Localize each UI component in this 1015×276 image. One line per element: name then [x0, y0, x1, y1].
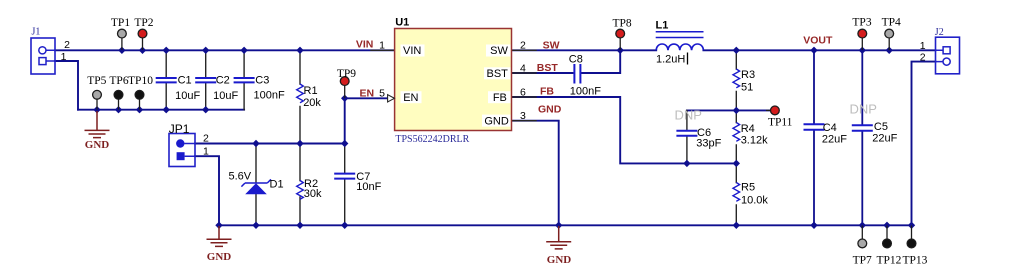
U1 pin name EN: [401, 91, 422, 103]
wire C2 leads: [205, 50, 207, 109]
svg-text:10uF: 10uF: [213, 90, 238, 102]
svg-text:2: 2: [920, 51, 926, 63]
svg-text:TP2: TP2: [134, 17, 153, 29]
junction TP13/J2: [908, 222, 915, 229]
junction C7 top on EN node: [341, 140, 348, 147]
test point TP8: [619, 38, 621, 50]
test point TP12: [886, 226, 888, 240]
op-amp U1 TPS562242DRLR body: [395, 29, 512, 131]
svg-text:C5: C5: [874, 121, 888, 133]
test point TP1: [121, 38, 123, 50]
svg-text:R1: R1: [304, 85, 318, 97]
svg-text:R3: R3: [741, 69, 755, 81]
svg-text:J1: J1: [32, 26, 41, 37]
wire C5 column: [861, 50, 863, 225]
svg-text:30k: 30k: [304, 188, 322, 200]
svg-text:TP4: TP4: [882, 17, 901, 29]
svg-text:R5: R5: [741, 182, 755, 194]
test point TP6: [118, 99, 120, 109]
junction U1 GND bottom: [555, 222, 562, 229]
svg-text:6: 6: [520, 86, 526, 98]
wire C6 top node to R3/R4 junction: [687, 109, 736, 111]
svg-text:GND: GND: [547, 254, 572, 266]
junction C5/TP7 bottom: [859, 222, 866, 229]
wire FB pin stub black: [512, 96, 537, 98]
junction C2 top: [202, 47, 209, 54]
svg-text:FB: FB: [493, 92, 507, 104]
junction C4 top: [810, 47, 817, 54]
svg-text:BST: BST: [486, 68, 508, 80]
svg-text:1: 1: [920, 40, 926, 52]
svg-text:4: 4: [520, 63, 526, 75]
U1 pin name GND: [482, 115, 511, 127]
svg-text:D1: D1: [270, 178, 284, 190]
resistor R2 zigzag: [297, 181, 304, 200]
junction R3 top: [733, 47, 740, 54]
svg-text:1: 1: [379, 40, 385, 52]
svg-text:1.2uH: 1.2uH: [656, 54, 685, 66]
test point TP11: [766, 109, 771, 111]
connector J2: [936, 37, 960, 74]
wire JP1 pin1 to bottom rail: [195, 156, 219, 225]
svg-text:TP8: TP8: [613, 17, 632, 29]
svg-text:JP1: JP1: [169, 122, 190, 136]
inductor L1: [656, 32, 704, 51]
resistor R1 zigzag: [297, 84, 304, 103]
svg-text:FB: FB: [540, 86, 554, 98]
svg-text:100nF: 100nF: [254, 89, 285, 101]
svg-text:1: 1: [61, 51, 67, 63]
svg-text:10nF: 10nF: [356, 181, 381, 193]
wire SW pin stub black: [512, 49, 537, 51]
wire C4 column: [813, 50, 815, 225]
ground symbol below U1 GND: [546, 226, 571, 249]
wire J2 pin2 to bottom rail: [912, 62, 936, 226]
svg-text:GND: GND: [85, 139, 110, 151]
wire C7 leads: [344, 144, 346, 226]
wire R2 leads: [299, 144, 301, 226]
capacitor C6 plates: [676, 131, 697, 136]
diode D1 zener 5.6V: [241, 179, 271, 194]
capacitor C1 plates: [156, 78, 177, 82]
wire VIN top rail (J1 pin2 to U1 VIN pin): [55, 49, 395, 51]
wire FB pin to divider: [512, 97, 737, 163]
wire bottom GND rail: [219, 224, 912, 226]
svg-text:TP7: TP7: [853, 254, 872, 266]
wire J1 pin1 to left gnd rail: [55, 61, 78, 110]
svg-text:GND: GND: [207, 251, 232, 263]
svg-text:SW: SW: [490, 45, 508, 57]
svg-text:GND: GND: [538, 104, 562, 116]
test point TP7: [861, 226, 863, 240]
capacitor C5 plates: [852, 125, 873, 131]
svg-text:10.0k: 10.0k: [741, 195, 768, 207]
resistor R4 zigzag: [733, 123, 740, 142]
svg-text:2: 2: [64, 39, 70, 51]
junction C6 bottom on FB: [683, 160, 690, 167]
capacitor C3 plates: [234, 78, 255, 82]
test point TP4: [888, 38, 890, 50]
svg-text:TP13: TP13: [902, 254, 927, 266]
junction TP3/C5 top: [859, 47, 866, 54]
capacitor C7 plates: [334, 174, 355, 179]
junction C2 bottom: [202, 106, 209, 113]
svg-text:C1: C1: [178, 75, 192, 87]
svg-text:DNP: DNP: [675, 108, 702, 123]
svg-text:2: 2: [520, 40, 526, 52]
junction TP9 on EN: [341, 95, 348, 102]
svg-text:33pF: 33pF: [696, 138, 721, 150]
svg-text:BST: BST: [537, 62, 559, 74]
junction TP10: [136, 106, 143, 113]
connector J1: [31, 38, 55, 74]
wire SW net (U1 SW pin to L1): [512, 49, 657, 51]
junction R4/R5 on FB: [733, 160, 740, 167]
junction R2 bottom: [296, 222, 303, 229]
junction TP12: [883, 222, 890, 229]
U1 pin name BST: [484, 67, 511, 79]
svg-text:10uF: 10uF: [175, 90, 200, 102]
svg-text:TPS562242DRLR: TPS562242DRLR: [395, 134, 469, 145]
U1 EN input triangle: [388, 95, 395, 102]
wire GND pin stub black: [512, 120, 537, 122]
svg-text:22uF: 22uF: [872, 133, 897, 145]
resistor R5 zigzag: [733, 183, 740, 202]
wire TP11 stub: [736, 109, 770, 111]
junction TP8/C8 on SW: [617, 47, 624, 54]
ground symbol below JP1: [207, 226, 232, 246]
svg-text:EN: EN: [403, 92, 418, 104]
svg-text:R4: R4: [741, 123, 755, 135]
svg-text:VIN: VIN: [403, 45, 421, 57]
svg-text:DNP: DNP: [850, 101, 877, 116]
svg-text:TP12: TP12: [876, 254, 901, 266]
U1 pin name FB: [488, 91, 511, 103]
U1 pin name SW: [486, 45, 511, 57]
svg-text:C8: C8: [569, 54, 583, 66]
wire VIN pin stub black: [371, 49, 395, 51]
test point TP3: [861, 38, 863, 50]
svg-text:SW: SW: [543, 39, 560, 51]
svg-text:TP10: TP10: [128, 75, 153, 87]
wire C8 right to SW node: [582, 50, 620, 73]
svg-text:J2: J2: [935, 27, 944, 38]
junction D1 top on EN node: [252, 140, 259, 147]
junction JP1/GND on bottom rail: [215, 222, 222, 229]
svg-text:GND: GND: [484, 115, 509, 127]
junction TP5: [93, 106, 100, 113]
svg-text:51: 51: [741, 81, 753, 93]
test point TP9: [344, 86, 346, 99]
svg-text:U1: U1: [395, 17, 409, 29]
svg-text:5: 5: [379, 88, 385, 100]
resistor R3 zigzag: [733, 69, 740, 88]
svg-text:2: 2: [203, 133, 209, 145]
junction D1 bottom: [252, 222, 259, 229]
wire VOUT rail (L1 to J2 pin1): [703, 49, 935, 51]
ground symbol left (below TP5 rail): [85, 111, 110, 138]
svg-text:TP5: TP5: [87, 75, 106, 87]
junction R1 top: [296, 47, 303, 54]
junction TP1: [118, 47, 125, 54]
svg-text:VIN: VIN: [356, 38, 374, 50]
svg-text:C2: C2: [216, 75, 230, 87]
wire R4 leads: [735, 110, 737, 163]
svg-text:1: 1: [203, 145, 209, 157]
U1 pin name VIN: [401, 45, 425, 57]
junction C1 bottom: [163, 106, 170, 113]
junction R3/R4/TP11: [733, 107, 740, 114]
junction R1/R2 on EN node: [296, 140, 303, 147]
svg-text:TP3: TP3: [852, 17, 871, 29]
wire R1 column leads: [299, 50, 301, 143]
svg-text:VOUT: VOUT: [803, 35, 833, 47]
wire BST pin to C8 left plate: [512, 72, 573, 74]
junction C7 bottom: [341, 222, 348, 229]
wire C6 leads: [686, 110, 688, 129]
capacitor C2 plates: [195, 78, 216, 82]
test point TP2: [142, 38, 144, 50]
wire U1 GND pin to bottom rail: [512, 121, 559, 226]
test point TP5: [96, 99, 98, 109]
junction TP4: [886, 47, 893, 54]
junction C3 top: [240, 47, 247, 54]
svg-text:EN: EN: [360, 88, 375, 100]
wire EN node vertical down to EN divider line: [344, 98, 346, 143]
wire BST pin stub black: [512, 72, 537, 74]
connector JP1: [169, 134, 195, 167]
svg-text:3.12k: 3.12k: [741, 134, 768, 146]
junction C1 top: [163, 47, 170, 54]
wire left GND rail: [78, 109, 244, 111]
test point TP10: [139, 99, 141, 109]
wire EN pin to TP9 node: [345, 97, 395, 99]
svg-text:TP1: TP1: [111, 17, 130, 29]
svg-text:5.6V: 5.6V: [229, 171, 252, 183]
capacitor C4 plates: [804, 124, 825, 130]
wire R5 leads: [735, 163, 737, 225]
wire C3 leads: [243, 50, 245, 109]
wire R3 column leads: [735, 50, 737, 110]
junction R5 bottom: [733, 222, 740, 229]
wire D1 leads: [255, 144, 257, 226]
svg-text:3: 3: [520, 110, 526, 122]
svg-text:C3: C3: [255, 75, 269, 87]
svg-text:100nF: 100nF: [570, 85, 601, 97]
junction TP2: [139, 47, 146, 54]
svg-text:TP6: TP6: [109, 75, 128, 87]
junction C4 bottom: [810, 222, 817, 229]
wire C1 leads: [165, 50, 167, 109]
svg-text:22uF: 22uF: [822, 133, 847, 145]
test point TP13: [911, 226, 913, 240]
svg-text:L1: L1: [656, 20, 669, 32]
junction TP6: [115, 106, 122, 113]
svg-text:C4: C4: [823, 122, 837, 134]
svg-text:TP9: TP9: [337, 68, 356, 80]
svg-text:20k: 20k: [303, 97, 321, 109]
svg-text:TP11: TP11: [768, 117, 793, 129]
wire EN divider node line (JP1 pin2 across D1 R2 C7): [195, 143, 345, 145]
capacitor C8 plates (vertical): [574, 64, 580, 84]
